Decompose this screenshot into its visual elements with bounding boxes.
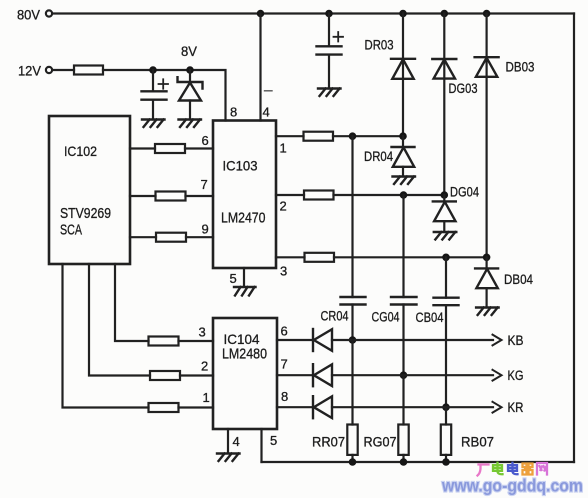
svg-text:KR: KR	[508, 400, 524, 415]
wire IC104 pin 8 out	[277, 406, 313, 408]
ground (IC103 pin 5)	[234, 287, 256, 296]
svg-text:LM2480: LM2480	[222, 346, 267, 363]
svg-text:IC103: IC103	[223, 158, 258, 174]
wire IC102 to R (row 6)	[130, 147, 155, 149]
IC104 LM2480	[213, 318, 277, 429]
node 80V / top cap junction	[325, 10, 333, 18]
wire 80V top rail	[53, 12, 575, 14]
wire IC102 bottom to IC104 pin 2	[89, 264, 150, 376]
wire IC104 pin 6 out	[277, 339, 313, 341]
node pin2 / CG04 junction	[400, 191, 408, 199]
wire R to IC103 pin 9	[186, 236, 213, 238]
diode DB04	[475, 257, 498, 307]
svg-text:DB04: DB04	[504, 272, 533, 287]
resistor row pin 6	[155, 144, 185, 153]
wire KR line	[332, 406, 493, 408]
svg-text:IC102: IC102	[64, 143, 97, 159]
resistor pin 2 output	[304, 191, 334, 200]
svg-text:SCA: SCA	[60, 223, 82, 239]
node 80V / DB03 junction	[483, 10, 491, 18]
wire R to IC103 pin 6	[185, 147, 213, 149]
ground (IC104 pin 4)	[217, 454, 240, 462]
IC102 STV9269	[49, 116, 130, 264]
resistor IC104 pin 1 input	[149, 403, 179, 412]
diode DG03	[432, 59, 456, 79]
wire KG to RG07	[402, 375, 404, 424]
ground (8V capacitor)	[142, 120, 165, 128]
svg-text:RG07: RG07	[364, 435, 397, 450]
arrow KR	[493, 402, 502, 413]
capacitor CR04	[341, 297, 366, 305]
diode on pin 8 (KR)	[313, 396, 332, 418]
wire R to IC103 pin 7	[186, 195, 214, 197]
wire IC102 to R (row 7)	[130, 195, 156, 197]
diode on pin 7 (KG)	[313, 364, 332, 386]
wire 12V to resistor	[53, 69, 75, 71]
node RG07 / bottom rail	[400, 458, 408, 466]
resistor 12V series	[74, 66, 103, 75]
ground (DG04)	[434, 232, 457, 240]
wire 12V rail to IC103 pin 8	[103, 70, 226, 121]
wire IC102 bottom to IC104 pin 1	[63, 264, 149, 408]
svg-text:3: 3	[280, 264, 287, 279]
svg-text:4: 4	[263, 105, 270, 120]
node 80V / DG03 junction	[441, 10, 449, 18]
svg-text:9: 9	[202, 222, 209, 237]
node KR junction	[442, 403, 450, 411]
svg-text:www.go-gddq.com: www.go-gddq.com	[441, 476, 583, 496]
node pin2 / DG column junction	[441, 191, 449, 199]
IC103 LM2470	[213, 121, 276, 269]
diode DB03	[475, 57, 499, 77]
svg-text:1: 1	[203, 390, 210, 405]
terminal 12V	[18, 64, 52, 79]
wire CR04 to KB line	[351, 305, 353, 341]
ground (80V cap)	[318, 89, 341, 97]
diode DG04	[433, 195, 456, 232]
wire IC103 pin 3 out	[276, 256, 305, 258]
node 12V/capacitor junction	[149, 66, 157, 74]
svg-text:12V: 12V	[18, 64, 41, 79]
node KG junction	[400, 371, 408, 379]
wire pin1 resistor to DR column	[333, 135, 403, 137]
wire resistor to IC104 pin 3	[179, 340, 214, 342]
node pin1 / CR04 junction	[349, 132, 357, 140]
wire pin2 resistor to DG column	[334, 194, 445, 196]
svg-text:8: 8	[230, 105, 237, 120]
resistor RG07	[398, 425, 408, 455]
svg-text:DR04: DR04	[364, 149, 393, 164]
wire CG04 to KG line	[402, 305, 404, 376]
resistor row pin 9	[156, 233, 186, 242]
ground (DR04)	[393, 177, 416, 185]
resistor pin 1 output	[304, 132, 334, 141]
node 80V / DR03 junction	[399, 10, 407, 18]
svg-text:8V: 8V	[181, 44, 197, 59]
svg-text:2: 2	[280, 199, 287, 214]
wire KB to RR07	[351, 340, 353, 425]
svg-text:5: 5	[270, 433, 277, 448]
wire CR04 column upper	[351, 136, 353, 297]
wire pin3 resistor to DB column	[334, 256, 487, 258]
node RR07 / bottom rail	[349, 458, 357, 466]
svg-text:CB04: CB04	[416, 310, 444, 325]
wire KB line	[332, 339, 493, 341]
node 12V/zener junction	[186, 66, 194, 74]
node RB07 / bottom rail	[442, 458, 450, 466]
ground (DB04)	[476, 308, 499, 316]
svg-text:STV9269: STV9269	[60, 206, 111, 222]
wire bottom rail	[262, 461, 575, 463]
wire RB07 to bottom rail	[445, 455, 447, 462]
wire IC104 pin 7 out	[277, 374, 313, 376]
svg-text:LM2470: LM2470	[221, 210, 266, 227]
diode on pin 6 (KB)	[313, 329, 332, 351]
svg-text:80V: 80V	[17, 8, 40, 23]
wire DG column top	[443, 14, 445, 196]
diode DR04	[392, 136, 415, 176]
svg-text:DG03: DG03	[449, 81, 478, 96]
capacitor CB04	[434, 298, 459, 306]
svg-text:KG: KG	[508, 368, 524, 383]
wire KG line	[332, 374, 493, 376]
svg-text:1: 1	[280, 141, 287, 156]
capacitor 80V filter (electrolytic)	[317, 14, 344, 89]
wire resistor to IC104 pin 1	[179, 406, 214, 408]
wire DB column top	[486, 14, 488, 258]
wire IC104 pin 5 to bottom rail	[260, 429, 262, 462]
ground (zener)	[179, 120, 202, 128]
svg-text:CG04: CG04	[372, 310, 400, 325]
terminal 80V	[17, 8, 52, 23]
resistor row pin 7	[156, 192, 186, 201]
wire IC102 bottom to IC104 pin 3	[115, 264, 149, 341]
svg-text:RB07: RB07	[461, 435, 494, 450]
node pin3 / DB column junction	[483, 253, 491, 261]
wire CG04 column upper	[402, 195, 404, 297]
wire DR column top	[402, 14, 404, 137]
svg-text:DG04: DG04	[450, 185, 479, 200]
wire IC104 pin 4 stub	[227, 429, 229, 453]
wire IC103 pin 1 out	[276, 135, 304, 137]
wire RR07 to bottom rail	[351, 455, 353, 462]
capacitor CG04	[391, 297, 417, 305]
scan artifact dash	[265, 90, 273, 92]
svg-text:5: 5	[230, 271, 237, 286]
wire 80V rail to IC103 pin 4	[259, 14, 261, 121]
resistor RR07	[347, 425, 357, 455]
resistor pin 3 output	[305, 253, 335, 262]
svg-text:RR07: RR07	[312, 435, 345, 450]
node KB junction	[349, 336, 357, 344]
svg-text:KB: KB	[508, 333, 524, 348]
zener diode 8V	[178, 70, 203, 120]
arrow KB	[493, 335, 502, 346]
svg-text:2: 2	[201, 359, 208, 374]
wire CB04 column upper	[445, 257, 447, 297]
node pin1 / DR column junction	[399, 132, 407, 140]
svg-text:6: 6	[281, 324, 288, 339]
svg-text:CR04: CR04	[321, 309, 349, 324]
wire CB04 to KR line	[445, 305, 447, 407]
node pin3 / CB04 junction	[442, 253, 450, 261]
wire RG07 to bottom rail	[402, 455, 404, 462]
wire right edge	[573, 14, 575, 463]
wire IC103 pin 5 stub	[243, 268, 245, 287]
svg-text:7: 7	[281, 357, 288, 372]
node 80V / pin4 junction	[257, 10, 265, 18]
svg-text:8: 8	[281, 389, 288, 404]
wire IC103 pin 2 out	[276, 194, 304, 196]
svg-text:DB03: DB03	[506, 60, 535, 75]
svg-text:7: 7	[201, 177, 208, 192]
resistor RB07	[441, 425, 451, 455]
svg-text:3: 3	[199, 325, 206, 340]
svg-text:6: 6	[202, 133, 209, 148]
resistor IC104 pin 2 input	[150, 371, 180, 380]
capacitor 8V filter (electrolytic)	[142, 70, 169, 120]
wire resistor to IC104 pin 2	[180, 374, 213, 376]
arrow KG	[493, 370, 502, 381]
svg-text:4: 4	[233, 434, 240, 449]
svg-text:DR03: DR03	[365, 38, 394, 53]
diode DR03	[391, 59, 415, 79]
resistor IC104 pin 3 input	[149, 337, 179, 346]
wire IC102 to R (row 9)	[130, 236, 156, 238]
watermark 广电电器网 (drawn glyphs)	[478, 463, 548, 476]
wire KR to RB07	[445, 407, 447, 424]
